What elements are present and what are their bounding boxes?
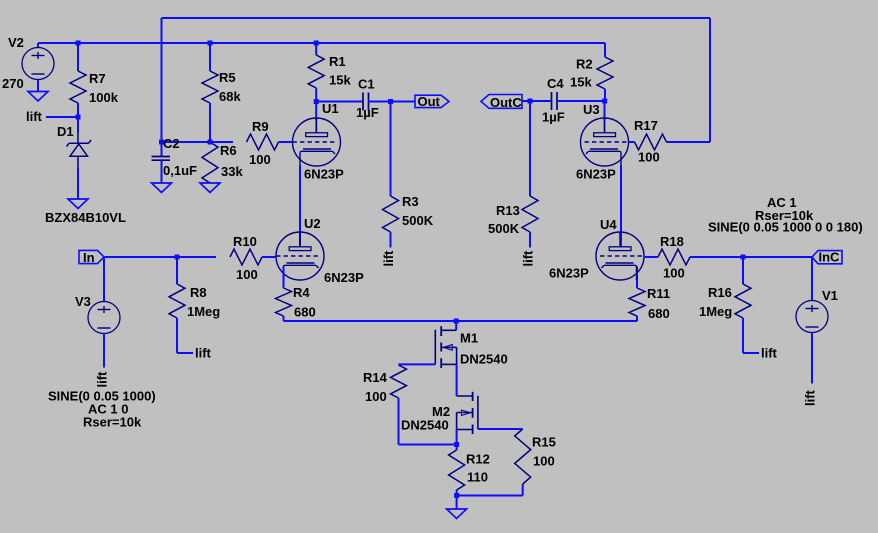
svg-text:R14: R14 (363, 370, 388, 385)
svg-text:DN2540: DN2540 (401, 418, 449, 433)
svg-text:Out: Out (418, 94, 441, 109)
svg-text:U4: U4 (600, 217, 617, 232)
svg-text:R9: R9 (252, 119, 269, 134)
svg-text:V1: V1 (822, 288, 838, 303)
svg-text:D1: D1 (57, 124, 74, 139)
svg-text:C2: C2 (163, 136, 180, 151)
svg-text:6N23P: 6N23P (549, 266, 589, 281)
svg-text:lift: lift (521, 250, 536, 267)
svg-text:100: 100 (638, 150, 660, 165)
svg-text:U2: U2 (304, 216, 321, 231)
svg-text:lift: lift (195, 346, 212, 361)
svg-text:R13: R13 (496, 203, 520, 218)
svg-text:DN2540: DN2540 (460, 352, 508, 367)
svg-text:100: 100 (236, 267, 258, 282)
svg-text:R17: R17 (634, 118, 658, 133)
svg-text:R12: R12 (466, 452, 490, 467)
svg-text:270: 270 (2, 76, 24, 91)
svg-text:M1: M1 (460, 331, 478, 346)
svg-text:110: 110 (467, 470, 488, 485)
svg-text:BZX84B10VL: BZX84B10VL (45, 210, 126, 225)
svg-text:lift: lift (381, 250, 396, 267)
svg-text:R1: R1 (329, 54, 346, 69)
svg-text:R7: R7 (89, 71, 106, 86)
svg-text:500K: 500K (402, 213, 434, 228)
svg-text:R4: R4 (293, 285, 310, 300)
svg-text:R2: R2 (576, 57, 593, 72)
svg-text:33k: 33k (221, 164, 243, 179)
svg-text:InC: InC (819, 250, 841, 265)
svg-text:R6: R6 (220, 143, 237, 158)
svg-text:680: 680 (648, 306, 670, 321)
svg-text:In: In (83, 250, 95, 265)
svg-text:R5: R5 (219, 70, 236, 85)
svg-text:100: 100 (249, 152, 271, 167)
svg-text:6N23P: 6N23P (324, 270, 364, 285)
svg-text:1µF: 1µF (356, 105, 379, 120)
svg-text:1Meg: 1Meg (187, 304, 220, 319)
svg-text:15k: 15k (329, 73, 351, 88)
svg-text:R15: R15 (532, 435, 556, 450)
svg-text:R11: R11 (647, 286, 670, 301)
svg-text:U1: U1 (322, 101, 339, 116)
svg-text:R3: R3 (402, 194, 419, 209)
svg-text:100: 100 (365, 389, 387, 404)
svg-text:15k: 15k (570, 75, 592, 90)
svg-text:6N23P: 6N23P (576, 167, 616, 182)
svg-text:lift: lift (26, 109, 43, 124)
svg-text:V2: V2 (8, 35, 24, 50)
svg-text:U3: U3 (583, 102, 600, 117)
svg-text:1µF: 1µF (542, 110, 565, 125)
svg-text:OutC: OutC (490, 95, 522, 110)
svg-text:lift: lift (803, 389, 818, 406)
svg-text:68k: 68k (219, 89, 241, 104)
svg-text:6N23P: 6N23P (304, 167, 344, 182)
svg-text:100k: 100k (89, 90, 119, 105)
svg-text:680: 680 (294, 305, 316, 320)
svg-text:SINE(0 0.05 1000 0 0 180): SINE(0 0.05 1000 0 0 180) (708, 220, 863, 235)
svg-text:Rser=10k: Rser=10k (83, 415, 142, 430)
svg-text:0,1uF: 0,1uF (163, 163, 197, 178)
svg-text:1Meg: 1Meg (699, 304, 732, 319)
svg-text:C1: C1 (358, 77, 375, 92)
svg-text:R8: R8 (190, 285, 207, 300)
svg-text:500K: 500K (488, 221, 520, 236)
svg-text:C4: C4 (547, 76, 564, 91)
svg-text:R10: R10 (233, 234, 257, 249)
svg-text:100: 100 (533, 454, 555, 469)
svg-text:R18: R18 (660, 234, 684, 249)
svg-text:lift: lift (95, 371, 110, 388)
svg-text:V3: V3 (75, 294, 91, 309)
svg-text:lift: lift (761, 346, 778, 361)
svg-text:R16: R16 (708, 285, 732, 300)
svg-text:100: 100 (663, 266, 685, 281)
